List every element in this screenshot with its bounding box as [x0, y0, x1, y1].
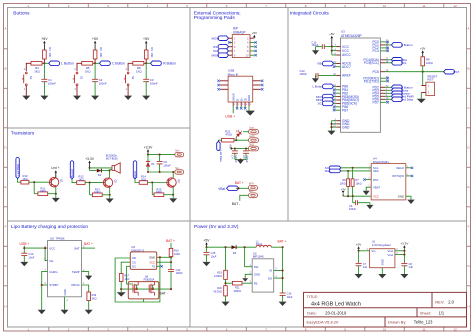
- svg-text:10: 10: [383, 327, 387, 331]
- svg-text:C Button: C Button: [112, 62, 125, 66]
- no-connect stub: [250, 54, 255, 56]
- node junction: [41, 284, 43, 286]
- wire: [422, 66, 424, 86]
- section divider horizontal Buttons/Transistors: [8, 127, 191, 129]
- wire: [347, 171, 349, 179]
- svg-text:H: H: [467, 305, 469, 309]
- resistor R2 10K: [93, 50, 97, 59]
- resistor R1 10K: [43, 50, 47, 59]
- svg-text:STDBY: STDBY: [49, 283, 58, 287]
- svg-text:1KΩ: 1KΩ: [124, 278, 129, 281]
- IC U1 regulator body: [370, 249, 395, 268]
- svg-text:Mo-: Mo-: [175, 168, 179, 170]
- wire: [353, 202, 356, 204]
- wire: [314, 74, 317, 76]
- svg-text:470Ω: 470Ω: [225, 133, 232, 137]
- svg-text:VCC: VCC: [49, 246, 55, 250]
- svg-text:+3.3V: +3.3V: [144, 145, 154, 149]
- wire: [225, 296, 227, 302]
- wire Q4 source stub: [143, 299, 145, 302]
- svg-text:EasyEDA V5.8.20: EasyEDA V5.8.20: [307, 320, 340, 325]
- pin PC1 24: [380, 44, 385, 46]
- resistor R8 1K: [133, 62, 144, 66]
- svg-text:E: E: [4, 185, 6, 189]
- resistor R20 40.2K: [224, 286, 228, 296]
- pad Mo+: [175, 152, 184, 156]
- svg-text:+5V: +5V: [341, 187, 346, 191]
- capacitor C1 100nF: [41, 78, 47, 80]
- ground: [73, 96, 81, 100]
- svg-text:PB7: PB7: [342, 108, 348, 112]
- svg-text:R1: R1: [48, 47, 52, 51]
- ground: [237, 160, 244, 164]
- pin ID: [244, 102, 246, 106]
- wire: [34, 193, 38, 195]
- no-connect RST (U4): [366, 179, 372, 181]
- ground: [117, 292, 126, 296]
- node junction: [159, 256, 161, 258]
- wire: [159, 155, 161, 162]
- LED LED1: [233, 129, 243, 139]
- wire: [136, 285, 138, 289]
- pin lead: [43, 59, 45, 63]
- net port MOSI: [218, 36, 228, 41]
- resistor R15 10K: [154, 193, 164, 197]
- wire: [243, 131, 249, 133]
- svg-text:SW: SW: [254, 265, 259, 269]
- pin D-: [236, 102, 238, 106]
- resistor R6 10K: [347, 179, 350, 187]
- wire: [347, 186, 349, 196]
- wire: [64, 297, 66, 310]
- pin D+: [240, 102, 242, 106]
- pin 1 (reset hdr): [421, 85, 426, 87]
- wire: [234, 153, 236, 159]
- wire: [164, 194, 173, 196]
- pad Led data: [249, 138, 259, 143]
- no-connect stub: [250, 50, 255, 52]
- svg-text:10KΩ: 10KΩ: [40, 190, 46, 193]
- net port C Button: [99, 61, 110, 66]
- wire: [334, 99, 337, 101]
- node junction: [89, 167, 91, 169]
- shell pin right: [253, 80, 261, 82]
- net port MISO: [218, 53, 228, 58]
- net port SCK: [218, 49, 228, 54]
- wire: [159, 164, 161, 172]
- svg-text:PD1(TXD): PD1(TXD): [364, 79, 379, 83]
- pin PD3 1: [380, 89, 385, 91]
- pin 2 (reset hdr): [421, 92, 426, 94]
- wire: [89, 183, 91, 195]
- pin PD5 9: [380, 95, 385, 97]
- wire: [145, 82, 147, 96]
- wire: [385, 98, 391, 100]
- wire: [135, 179, 139, 183]
- svg-text:REV:: REV:: [435, 300, 444, 305]
- switch S3: [127, 72, 129, 74]
- svg-text:10K: 10K: [99, 52, 103, 57]
- wire: [206, 255, 208, 262]
- pin stub right 2: [250, 37, 254, 39]
- svg-text:1KΩ: 1KΩ: [78, 177, 83, 181]
- svg-text:10uF: 10uF: [211, 254, 217, 258]
- node junction: [331, 46, 333, 48]
- wire: [332, 123, 337, 125]
- resistor R14 1K: [139, 181, 147, 185]
- wire: [94, 63, 96, 79]
- pin VBUS: [232, 102, 234, 106]
- wire: [233, 148, 248, 150]
- net port Buzzer (U3): [391, 91, 402, 96]
- pin PB3(MOSI) 15: [337, 96, 341, 98]
- wire: [385, 86, 391, 88]
- svg-text:BAT +: BAT +: [278, 239, 287, 243]
- svg-text:F: F: [468, 225, 470, 229]
- svg-text:1KΩ: 1KΩ: [136, 69, 142, 73]
- pin stub left 7: [229, 50, 233, 52]
- wire: [170, 257, 172, 270]
- wire: [85, 182, 105, 184]
- node junction: [159, 154, 161, 156]
- wire: [225, 279, 227, 285]
- wire PC6 to RST: [385, 71, 444, 73]
- svg-text:S2: S2: [80, 76, 84, 80]
- wire: [332, 120, 337, 122]
- capacitor C3 100nF: [143, 78, 149, 80]
- svg-text:A: A: [4, 26, 6, 30]
- svg-text:MOSI: MOSI: [212, 36, 220, 40]
- svg-text:2.0: 2.0: [448, 300, 454, 305]
- wire: [146, 62, 150, 64]
- resistor R13 10K: [92, 193, 102, 197]
- wire: [282, 247, 284, 293]
- node junction: [403, 250, 405, 252]
- capacitor C10 100nF: [321, 44, 323, 49]
- pin PC6 29: [380, 71, 385, 73]
- svg-text:10K: 10K: [150, 52, 154, 57]
- wire: [403, 255, 405, 264]
- wire: [240, 195, 249, 201]
- node junction: [224, 282, 226, 284]
- IC U5 TP4056 body: [48, 241, 82, 297]
- wire GND stem: [381, 268, 383, 274]
- wire: [331, 121, 333, 131]
- node junction: [239, 159, 241, 161]
- svg-text:CHRG: CHRG: [49, 270, 57, 274]
- svg-text:10KΩ: 10KΩ: [94, 191, 100, 194]
- section divider horizontal y=221: [8, 220, 467, 222]
- ground: [20, 262, 28, 266]
- svg-text:BAT +: BAT +: [84, 242, 93, 246]
- svg-text:+5V: +5V: [356, 243, 361, 247]
- wire: [385, 95, 391, 97]
- wire: [385, 44, 391, 46]
- ground: [279, 302, 287, 306]
- pin VCC 4: [337, 50, 341, 52]
- switch S2: [76, 72, 78, 74]
- pin stub left 5: [229, 46, 233, 48]
- svg-text:100nF: 100nF: [99, 81, 107, 85]
- wire: [102, 194, 110, 196]
- net port RST (isp): [218, 44, 228, 49]
- ground: [124, 96, 132, 100]
- inductor L1: [256, 245, 271, 247]
- wire: [242, 282, 252, 284]
- ground: [312, 50, 319, 54]
- resistor R17 1K: [119, 274, 123, 282]
- wire: [385, 92, 391, 94]
- svg-text:RST: RST: [373, 178, 379, 182]
- wire: [334, 85, 337, 87]
- pin GND 5: [337, 123, 341, 125]
- ground: [106, 199, 114, 203]
- no-connect stub pin3: [230, 41, 233, 43]
- pad BAT-: [249, 193, 258, 198]
- header ISP body: [232, 35, 250, 58]
- wire TS stub: [157, 265, 161, 267]
- ground: [85, 276, 92, 280]
- svg-text:100nF: 100nF: [300, 72, 308, 76]
- transistor Q2: [103, 178, 112, 187]
- ground: [378, 274, 386, 278]
- svg-text:INT/SQW: INT/SQW: [392, 174, 404, 178]
- pin VCC 7: [337, 46, 341, 48]
- svg-text:OC: OC: [132, 264, 136, 268]
- capacitor C5 220uF: [243, 150, 249, 152]
- pin GND 3: [337, 120, 341, 122]
- resistor R21 100K: [232, 281, 242, 285]
- no-connect x D+: [240, 106, 242, 108]
- wire: [90, 194, 93, 196]
- svg-text:Motor: Motor: [133, 171, 137, 178]
- node junction: [244, 246, 246, 248]
- wire: [89, 168, 91, 171]
- net port SDA (U3): [391, 58, 402, 63]
- svg-text:Date:: Date:: [307, 311, 317, 316]
- wire: [352, 196, 354, 203]
- wire: [55, 187, 57, 198]
- svg-text:VCC: VCC: [373, 194, 379, 198]
- wire: [395, 250, 405, 252]
- wire: [234, 149, 236, 151]
- diode D4: [232, 245, 237, 249]
- pin lead: [26, 63, 31, 71]
- svg-text:Lipo Battery charging and prot: Lipo Battery charging and protection: [11, 224, 88, 230]
- resistor R9 10K: [421, 57, 425, 66]
- svg-text:E: E: [467, 185, 469, 189]
- svg-text:1KΩ: 1KΩ: [141, 177, 146, 181]
- wire: [95, 62, 99, 64]
- ground: [366, 205, 373, 209]
- wire VCC pin: [157, 261, 171, 263]
- wire: [170, 243, 172, 248]
- svg-text:SCL: SCL: [401, 61, 407, 65]
- wire STDBY tie: [42, 284, 48, 286]
- diode D2: [97, 169, 102, 173]
- wire: [82, 247, 96, 249]
- wire: [315, 47, 317, 51]
- wire: [352, 168, 354, 179]
- svg-text:GND: GND: [63, 289, 67, 295]
- svg-text:VBAT: VBAT: [373, 185, 380, 189]
- wire: [48, 193, 56, 195]
- pin stub left 1: [229, 37, 233, 39]
- capacitor C7 1uF: [356, 262, 362, 264]
- svg-text:USB +: USB +: [225, 115, 235, 119]
- wire: [225, 247, 227, 270]
- wire: [29, 181, 51, 183]
- svg-text:TS: TS: [152, 264, 156, 268]
- node junction: [352, 167, 354, 169]
- svg-text:100nF: 100nF: [48, 81, 56, 85]
- ground: [245, 111, 255, 116]
- wire: [359, 250, 370, 252]
- svg-text:+5V: +5V: [92, 37, 99, 41]
- svg-text:D2: D2: [98, 173, 102, 177]
- IC U2 MP1540 body: [252, 259, 274, 292]
- pin PD2 32: [380, 86, 385, 88]
- svg-text:Drawn By:: Drawn By:: [388, 320, 406, 325]
- svg-text:10K: 10K: [48, 52, 52, 57]
- wire GND: [248, 106, 250, 111]
- pin lead: [94, 59, 96, 63]
- net port VBat (U3): [322, 61, 333, 66]
- svg-text:3.3V Regulator: 3.3V Regulator: [372, 243, 391, 247]
- svg-text:12: 12: [453, 327, 457, 331]
- wire: [236, 187, 249, 189]
- wire SW: [245, 247, 253, 267]
- wire: [334, 63, 337, 65]
- wire: [237, 246, 257, 248]
- wire: [151, 183, 153, 195]
- pin ADC6 19: [337, 63, 341, 65]
- net port R Button (U3): [391, 85, 402, 90]
- section divider vertical x=288: [287, 8, 289, 222]
- svg-text:FB: FB: [254, 281, 258, 285]
- wire: [334, 96, 337, 98]
- node junction: [136, 288, 138, 290]
- svg-text:40.2KΩ: 40.2KΩ: [213, 290, 222, 293]
- svg-text:Telito_123: Telito_123: [414, 320, 433, 325]
- pin lead: [144, 62, 146, 64]
- node junction: [147, 171, 149, 173]
- svg-text:BAT -: BAT -: [232, 202, 240, 206]
- buzzer BU2009x MLT-8530: [112, 166, 115, 171]
- wire GND (U4): [406, 196, 411, 199]
- pad Led gnd: [249, 146, 259, 151]
- svg-text:D4: D4: [233, 251, 237, 255]
- node junction: [94, 62, 96, 64]
- pin lead: [93, 62, 95, 64]
- ground: [85, 310, 93, 314]
- capacitor C6 100nF: [355, 200, 357, 205]
- net port SCL (U4): [329, 166, 341, 170]
- wire: [316, 46, 323, 48]
- svg-text:GND: GND: [398, 194, 404, 198]
- wire: [147, 155, 149, 161]
- wire: [148, 171, 175, 173]
- net port RST (U3): [444, 69, 455, 74]
- svg-text:Q1: Q1: [60, 179, 64, 183]
- svg-text:C Button: C Button: [401, 43, 413, 47]
- ground: [203, 262, 211, 266]
- wire: [33, 182, 35, 194]
- svg-text:PC6: PC6: [372, 70, 379, 74]
- IC U3 ATMEGA328P body: [341, 38, 381, 132]
- svg-text:+5V: +5V: [420, 47, 425, 51]
- wire: [385, 89, 391, 91]
- svg-text:R Button: R Button: [163, 62, 176, 66]
- svg-text:S1: S1: [29, 76, 33, 80]
- dual MOSFET Q4 FS8205A body: [128, 282, 159, 299]
- svg-text:S3: S3: [131, 76, 135, 80]
- shell pin left: [220, 80, 228, 82]
- svg-text:L Button: L Button: [61, 62, 73, 66]
- svg-text:100nF: 100nF: [163, 163, 171, 167]
- shell pin left: [220, 84, 228, 86]
- node junction: [224, 246, 226, 248]
- node junction: [23, 247, 25, 249]
- ground: [61, 310, 69, 314]
- wire: [72, 179, 77, 183]
- net port C Button (U3): [391, 43, 402, 48]
- svg-text:+3.3V: +3.3V: [85, 157, 95, 161]
- wire: [23, 256, 25, 262]
- node junction: [44, 247, 46, 249]
- svg-text:LedD: LedD: [249, 136, 255, 138]
- svg-text:10uF: 10uF: [287, 295, 293, 299]
- no-connect 32kHz: [406, 167, 411, 169]
- svg-text:10KΩ: 10KΩ: [340, 183, 346, 186]
- ground: [142, 96, 150, 100]
- net port MISO (U3): [322, 98, 333, 103]
- wire: [403, 266, 405, 274]
- svg-text:PD7: PD7: [372, 101, 379, 105]
- svg-text:Mo+: Mo+: [175, 151, 180, 153]
- svg-text:+5V: +5V: [143, 37, 150, 41]
- net port Led Data (vertical): [217, 141, 220, 150]
- svg-text:20-01-2019: 20-01-2019: [325, 311, 347, 316]
- wire: [152, 194, 154, 196]
- wire: [94, 82, 96, 96]
- node junction: [330, 123, 332, 125]
- wire: [90, 167, 112, 169]
- svg-text:MLT-8530: MLT-8530: [106, 157, 118, 161]
- svg-text:+5V: +5V: [252, 31, 257, 35]
- svg-text:1KΩ: 1KΩ: [34, 69, 40, 73]
- header RESET body: [426, 82, 435, 95]
- net port SDA (U4): [329, 169, 341, 173]
- ground: [52, 198, 60, 202]
- svg-text:EN: EN: [268, 276, 272, 280]
- wire: [147, 167, 149, 172]
- pad BAT+: [249, 185, 258, 190]
- ground: [40, 96, 48, 100]
- pin lead: [145, 59, 147, 63]
- svg-text:F: F: [5, 225, 7, 229]
- capacitor C13 10uF: [21, 252, 27, 254]
- svg-text:AVCC: AVCC: [342, 53, 352, 57]
- svg-text:CE: CE: [49, 259, 53, 263]
- svg-text:100nF: 100nF: [349, 208, 357, 211]
- wire OC: [127, 266, 133, 284]
- node junction: [235, 139, 237, 141]
- resistor R4 1K: [31, 62, 42, 66]
- net port Led Data (U3): [391, 97, 402, 102]
- svg-text:Led Data: Led Data: [401, 98, 414, 102]
- svg-text:BAT: BAT: [74, 246, 80, 250]
